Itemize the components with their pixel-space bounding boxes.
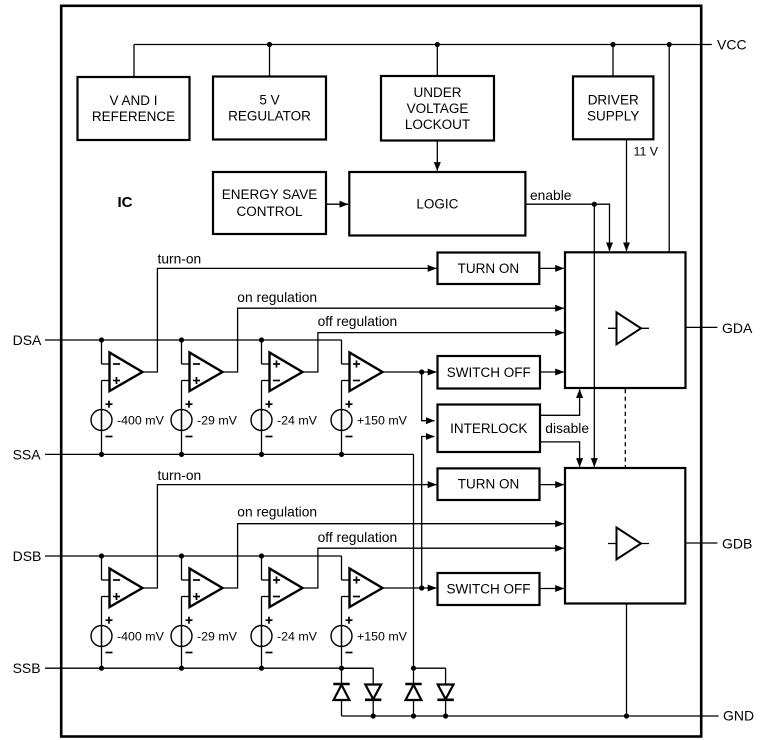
wire comp A4 input to source xyxy=(341,381,343,431)
svg-text:disable: disable xyxy=(545,421,589,436)
buffer amplifier A xyxy=(608,327,649,329)
junction SSA comp A1 xyxy=(99,452,104,457)
junction SSA drop on diode bus 2 xyxy=(411,666,416,671)
block: V AND I REFERENCE xyxy=(78,77,190,140)
wire comp A4 to SWITCH OFF A xyxy=(383,371,437,373)
stub top input comp B3 xyxy=(262,579,271,581)
junction DSA comp A2 xyxy=(179,337,184,342)
sign + comp B2 xyxy=(193,596,200,598)
wire comp A2 input to source xyxy=(181,381,183,431)
wire ENERGY SAVE CONTROL to LOGIC arrow xyxy=(326,203,348,205)
svg-text:INTERLOCK: INTERLOCK xyxy=(450,421,527,436)
svg-text:-400 mV: -400 mV xyxy=(117,630,165,644)
junction on VCC at driver supply xyxy=(610,42,615,47)
source A2 plus xyxy=(186,403,193,405)
svg-text:on regulation: on regulation xyxy=(237,504,317,519)
sign - comp B3 xyxy=(273,596,280,598)
wire comp A3 input to source xyxy=(261,381,263,431)
wire source B3 to SSB xyxy=(261,647,263,669)
svg-text:GDB: GDB xyxy=(722,536,752,552)
junction SSB comp B3 xyxy=(259,666,264,671)
source B1 plus xyxy=(106,619,113,621)
junction D2 on GND rail xyxy=(371,713,376,718)
source B4 minus xyxy=(346,652,353,654)
stub top input comp A2 xyxy=(182,363,191,365)
block: TURN ON A xyxy=(438,253,540,285)
voltage source B1 -400 mV xyxy=(91,626,112,647)
comparator A2 xyxy=(190,353,223,392)
svg-text:turn-on: turn-on xyxy=(158,252,202,267)
sign + comp B4 xyxy=(353,579,360,581)
stub bottom input comp B3 xyxy=(262,596,271,598)
source A4 plus xyxy=(346,403,353,405)
diode D1 (cathode up) xyxy=(341,668,343,684)
wire source B4 to SSB xyxy=(341,647,343,669)
wire DSA to comparator 4 input xyxy=(341,340,343,364)
svg-text:-29 mV: -29 mV xyxy=(197,630,238,644)
wire SSA down to diode pair 2 xyxy=(413,454,415,668)
svg-text:off regulation: off regulation xyxy=(318,530,398,545)
diode D3 (cathode up) xyxy=(413,668,415,684)
voltage source A3 -24 mV xyxy=(251,410,272,431)
svg-text:UNDER: UNDER xyxy=(413,85,461,100)
stub top input comp B2 xyxy=(182,579,191,581)
wire VCC down to gate driver A xyxy=(668,45,670,253)
svg-text:DSB: DSB xyxy=(13,548,42,564)
voltage source B3 -24 mV xyxy=(251,626,272,647)
junction DSA comp A3 xyxy=(259,337,264,342)
block: SWITCH OFF A xyxy=(438,356,541,389)
svg-text:REGULATOR: REGULATOR xyxy=(228,109,311,124)
sign + comp A1 xyxy=(113,380,120,382)
junction SSA comp A2 xyxy=(179,452,184,457)
wire enable from LOGIC to driver A xyxy=(525,204,609,251)
wire SWITCH OFF A to driver A xyxy=(540,371,564,373)
svg-text:5 V: 5 V xyxy=(259,93,279,108)
block: 5 V REGULATOR xyxy=(213,77,326,140)
voltage source B4 +150 mV xyxy=(331,626,352,647)
source A2 minus xyxy=(186,436,193,438)
wire DSA down to comp A3 input xyxy=(261,340,263,364)
svg-text:GDA: GDA xyxy=(722,320,753,336)
block: SWITCH OFF B xyxy=(438,573,540,605)
junction D4 on GND rail xyxy=(443,713,448,718)
junction SSA comp A4 xyxy=(339,452,344,457)
svg-text:DSA: DSA xyxy=(13,332,42,348)
diode D4 (cathode down) xyxy=(445,668,447,684)
junction enable branch xyxy=(592,202,597,207)
wire on regulation A xyxy=(223,308,564,372)
source A3 plus xyxy=(266,403,273,405)
wire DSB down to comp B3 input xyxy=(261,556,263,580)
svg-text:-24 mV: -24 mV xyxy=(277,414,318,428)
wire comp A4 to INTERLOCK upper input xyxy=(422,372,435,421)
svg-text:SWITCH OFF: SWITCH OFF xyxy=(447,582,531,597)
svg-text:SSA: SSA xyxy=(13,446,42,462)
junction comp A4 output xyxy=(419,369,424,374)
sign + comp A3 xyxy=(273,363,280,365)
wire comp A1 input to source xyxy=(101,381,103,431)
wire GDA output xyxy=(686,326,718,328)
source A1 minus xyxy=(106,436,113,438)
svg-text:SWITCH OFF: SWITCH OFF xyxy=(447,365,531,380)
svg-text:VOLTAGE: VOLTAGE xyxy=(407,101,469,116)
svg-text:-400 mV: -400 mV xyxy=(117,414,165,428)
stub bottom input comp B2 xyxy=(182,596,191,598)
wire VCC to UNDER VOLTAGE LOCKOUT xyxy=(436,45,438,77)
comparator B3 xyxy=(270,569,303,608)
wire source A1 to SSA xyxy=(101,431,103,455)
comparator B1 xyxy=(110,569,143,608)
wire comp B4 to SWITCH OFF B xyxy=(383,587,437,589)
wire on regulation B xyxy=(223,524,564,588)
stub bottom input comp B4 xyxy=(342,596,351,598)
sign - comp A4 xyxy=(353,380,360,382)
wire VCC to DRIVER SUPPLY xyxy=(612,45,614,77)
comparator A4 xyxy=(350,353,383,392)
junction DSB comp B3 xyxy=(259,553,264,558)
stub bottom input comp A3 xyxy=(262,380,271,382)
block: DRIVER SUPPLY xyxy=(573,76,653,139)
wire DSB down to comp B2 input xyxy=(181,556,183,580)
voltage source A2 -29 mV xyxy=(171,410,192,431)
svg-text:TURN ON: TURN ON xyxy=(458,261,520,276)
wire 11 V from DRIVER SUPPLY to driver A xyxy=(626,139,628,251)
voltage source A4 +150 mV xyxy=(331,410,352,431)
buffer amplifier B xyxy=(608,543,649,545)
svg-text:TURN ON: TURN ON xyxy=(458,477,520,492)
source A3 minus xyxy=(266,436,273,438)
wire comp B2 input to source xyxy=(181,597,183,647)
source B2 minus xyxy=(186,652,193,654)
block: INTERLOCK xyxy=(438,405,541,453)
junction SSB comp B2 xyxy=(179,666,184,671)
wire off regulation B xyxy=(303,548,564,588)
svg-text:off regulation: off regulation xyxy=(318,314,398,329)
wire source B1 to SSB xyxy=(101,647,103,669)
stub top input comp B1 xyxy=(102,579,111,581)
wire VCC to V AND I REFERENCE xyxy=(133,45,135,78)
wire DSA down to comp A2 input xyxy=(181,340,183,364)
wire driver B to GND rail xyxy=(626,604,628,717)
svg-text:DRIVER: DRIVER xyxy=(588,92,639,107)
wire INTERLOCK disable to driver A xyxy=(540,389,580,415)
svg-text:-29 mV: -29 mV xyxy=(197,414,238,428)
wire SWITCH OFF B to driver B xyxy=(540,588,564,590)
stub bottom input comp A1 xyxy=(102,380,111,382)
svg-text:SUPPLY: SUPPLY xyxy=(587,108,639,123)
wire VCC to 5 V REGULATOR xyxy=(269,45,271,77)
junction DSA comp A1 xyxy=(99,337,104,342)
sign - comp B4 xyxy=(353,596,360,598)
junction comp B4 output xyxy=(419,585,424,590)
wire source A2 to SSA xyxy=(181,431,183,455)
svg-text:LOGIC: LOGIC xyxy=(416,196,458,211)
junction SSB comp B4 xyxy=(339,666,344,671)
wire source A4 to SSA xyxy=(341,431,343,455)
sign - comp B1 xyxy=(113,579,120,581)
junction D3 on GND rail xyxy=(411,713,416,718)
stub bottom input comp A4 xyxy=(342,380,351,382)
source B2 plus xyxy=(186,619,193,621)
block: gate driver B xyxy=(565,468,685,604)
svg-text:on regulation: on regulation xyxy=(237,290,317,305)
junction driver B on GND rail xyxy=(624,713,629,718)
wire DSB down to comp B1 input xyxy=(101,556,103,580)
svg-text:+150 mV: +150 mV xyxy=(357,630,408,644)
stub bottom input comp B1 xyxy=(102,596,111,598)
wire comp B1 input to source xyxy=(101,597,103,647)
stub top input comp A4 xyxy=(342,363,351,365)
stub bottom input comp A2 xyxy=(182,380,191,382)
svg-text:GND: GND xyxy=(723,708,754,724)
svg-text:-24 mV: -24 mV xyxy=(277,630,318,644)
source B3 minus xyxy=(266,652,273,654)
block: LOGIC xyxy=(349,172,525,236)
sign + comp B1 xyxy=(113,596,120,598)
wire source B2 to SSB xyxy=(181,647,183,669)
junction on VCC at 5V regulator xyxy=(267,42,272,47)
svg-text:CONTROL: CONTROL xyxy=(236,204,302,219)
svg-text:+150 mV: +150 mV xyxy=(357,414,408,428)
wire turn-on A xyxy=(143,268,437,372)
block: gate driver A xyxy=(565,252,686,388)
svg-text:ENERGY SAVE: ENERGY SAVE xyxy=(222,187,318,202)
sign - comp A1 xyxy=(113,363,120,365)
wire GDB output xyxy=(685,542,717,544)
voltage source B2 -29 mV xyxy=(171,626,192,647)
junction SSB comp B1 xyxy=(99,666,104,671)
block: UNDER VOLTAGE LOCKOUT xyxy=(381,76,494,141)
source A1 plus xyxy=(106,403,113,405)
wire VCC bus horizontal xyxy=(134,44,712,46)
wire diode pair 1 top bus xyxy=(342,667,374,669)
sign - comp A3 xyxy=(273,380,280,382)
svg-text:11 V: 11 V xyxy=(634,144,659,158)
wire diode pair 2 top bus xyxy=(414,667,446,669)
wire enable branch down to driver B xyxy=(593,204,595,467)
svg-text:SSB: SSB xyxy=(13,660,41,676)
stub top input comp A1 xyxy=(102,363,111,365)
sign + comp B3 xyxy=(273,579,280,581)
wire GND rail xyxy=(342,715,719,717)
comparator A3 xyxy=(270,353,303,392)
dashed wire driver A to driver B xyxy=(624,389,626,467)
svg-text:VCC: VCC xyxy=(717,37,747,53)
wire source A3 to SSA xyxy=(261,431,263,455)
block: ENERGY SAVE CONTROL xyxy=(213,172,326,234)
wire SSB line xyxy=(45,667,373,669)
source A4 minus xyxy=(346,436,353,438)
svg-text:LOCKOUT: LOCKOUT xyxy=(405,117,470,132)
stub top input comp A3 xyxy=(262,363,271,365)
wire comp B4 to INTERLOCK lower input xyxy=(422,437,435,589)
sign - comp B2 xyxy=(193,579,200,581)
diode D2 (cathode down) xyxy=(372,668,374,684)
wire TURN ON A to driver A xyxy=(539,267,564,269)
stub top input comp B4 xyxy=(342,579,351,581)
junction DSB comp B2 xyxy=(179,553,184,558)
wire INTERLOCK disable to driver B xyxy=(540,442,580,467)
source B3 plus xyxy=(266,619,273,621)
junction DSB comp B1 xyxy=(99,553,104,558)
svg-text:REFERENCE: REFERENCE xyxy=(92,109,175,124)
source B1 minus xyxy=(106,652,113,654)
comparator B4 xyxy=(350,569,383,608)
sign - comp A2 xyxy=(193,363,200,365)
wire comp B3 input to source xyxy=(261,597,263,647)
source B4 plus xyxy=(346,619,353,621)
comparator A1 xyxy=(110,353,143,392)
svg-text:turn-on: turn-on xyxy=(158,468,202,483)
svg-text:IC: IC xyxy=(118,194,133,211)
sign + comp A2 xyxy=(193,380,200,382)
comparator B2 xyxy=(190,569,223,608)
wire DSA down to comp A1 input xyxy=(101,340,103,364)
wire comp B4 input to source xyxy=(341,597,343,647)
junction SSA comp A3 xyxy=(259,452,264,457)
wire off regulation A xyxy=(303,333,564,372)
svg-text:enable: enable xyxy=(530,188,572,203)
junction on VCC at driver A drop xyxy=(667,42,672,47)
wire DSA input line xyxy=(45,339,342,341)
voltage source A1 -400 mV xyxy=(91,410,112,431)
wire DSB to comparator 4 input xyxy=(341,556,343,580)
wire UVLO down to LOGIC arrow xyxy=(436,141,438,171)
wire turn-on B xyxy=(143,485,437,588)
wire DSB input line xyxy=(45,555,342,557)
junction on VCC at UVLO xyxy=(435,42,440,47)
block: TURN ON B xyxy=(438,468,540,500)
svg-text:V AND I: V AND I xyxy=(109,93,157,108)
sign + comp A4 xyxy=(353,363,360,365)
wire TURN ON B to driver B xyxy=(540,484,564,486)
wire SSA line xyxy=(45,453,414,455)
